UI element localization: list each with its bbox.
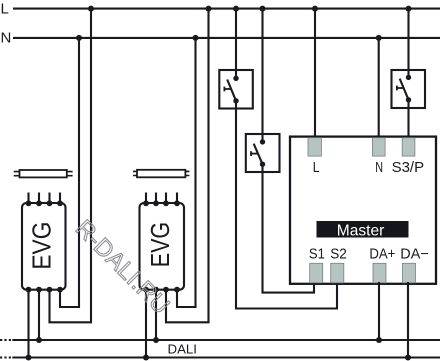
svg-text:S1: S1 <box>309 247 325 263</box>
terminal N <box>372 138 385 156</box>
EVG2 top pins <box>143 200 180 206</box>
terminal DA+ <box>373 263 386 283</box>
ballast EVG2 <box>140 203 185 290</box>
svg-text:S2: S2 <box>330 247 347 263</box>
wire net N to terminal N of master <box>378 38 380 138</box>
SW3 top contact <box>406 75 411 80</box>
SW2 top contact <box>260 139 265 144</box>
wire terminal DA+ to DALI upper <box>378 282 380 340</box>
lamp LA2 (fluorescent tube) <box>133 170 189 178</box>
wire EVG2 pin3 to net L <box>166 9 209 323</box>
dotted continuation DALI upper <box>0 339 11 341</box>
wire EVG2 pin2 to DALI upper <box>155 290 157 340</box>
wire net L to switch SW3 <box>407 9 409 77</box>
svg-text:DA+: DA+ <box>369 247 395 263</box>
SW1 top contact <box>233 76 238 81</box>
wire SW3 to terminal S3/P <box>407 100 409 137</box>
wire EVG2 pin1 to DALI lower <box>145 290 147 358</box>
pushbutton SW3 actuator <box>397 79 409 100</box>
junction DA- bus <box>405 355 411 361</box>
terminal S1 <box>310 263 323 283</box>
svg-text:DA−: DA− <box>400 247 429 263</box>
wire EVG1 pin1 to DALI lower <box>27 290 29 358</box>
junction EVG2-DA+ <box>153 337 159 343</box>
junction EVG2-L <box>206 6 212 12</box>
wire terminal DA- to DALI lower <box>407 282 409 358</box>
junction master N <box>376 35 382 41</box>
wire net L to terminal L of master <box>314 9 316 138</box>
pushbutton SW1 box <box>219 70 253 109</box>
svg-text:L: L <box>313 160 320 176</box>
svg-text:Master: Master <box>337 222 385 239</box>
svg-text:N: N <box>375 160 383 176</box>
SW3 bottom contact <box>406 97 411 102</box>
SW1 bottom contact <box>233 98 238 103</box>
terminal S2 <box>331 263 344 283</box>
svg-text:EVG: EVG <box>27 222 57 270</box>
svg-text:N: N <box>1 30 12 47</box>
junction EVG1-DA- <box>26 355 32 361</box>
lamp LA2 connection stubs <box>146 193 177 204</box>
EVG1 top pins <box>26 200 63 206</box>
EVG1 bottom pins <box>26 287 63 293</box>
junction EVG1-DA+ <box>36 337 42 343</box>
net L (mains line) <box>13 8 440 10</box>
wire SW2 to terminal S1 <box>263 164 315 292</box>
wire EVG1 pin3 to net L <box>50 9 92 323</box>
svg-text:S3/P: S3/P <box>392 160 425 176</box>
junction EVG2-DA- <box>143 355 149 361</box>
junction SW3-L <box>406 6 412 12</box>
pushbutton SW2 box <box>246 134 280 172</box>
pushbutton SW2 actuator <box>251 144 263 165</box>
net DALI lower (DA-) bus <box>12 356 440 358</box>
master nameplate <box>317 221 409 238</box>
net N (mains line) <box>13 37 440 39</box>
pushbutton SW3 box <box>392 70 426 108</box>
wire EVG1 pin2 to DALI upper <box>38 290 40 340</box>
lamp LA1 connection stubs <box>29 193 61 204</box>
pushbutton SW1 actuator <box>224 80 236 101</box>
watermark R-DALI.RU <box>70 215 175 320</box>
svg-text:L: L <box>1 0 9 17</box>
terminal S3/P <box>402 138 415 156</box>
junction master L <box>312 6 318 12</box>
svg-text:DALI: DALI <box>168 343 198 357</box>
junction SW1-L <box>233 6 239 12</box>
lamp LA1 (fluorescent tube) <box>14 170 73 177</box>
SW2 bottom contact <box>260 162 265 167</box>
wire net L to switch SW1 <box>235 9 237 78</box>
wire net L to switch SW2 <box>261 9 263 142</box>
EVG2 bottom pins <box>143 287 180 293</box>
junction DA+ bus <box>376 337 382 343</box>
wire EVG2 pin4 to net N <box>177 38 196 307</box>
junction SW2-L <box>260 6 266 12</box>
dotted continuation DALI lower <box>0 356 11 358</box>
wire EVG1 pin4 to net N <box>60 38 79 307</box>
net DALI upper (DA+) bus <box>12 339 440 341</box>
junction EVG1-N <box>76 35 82 41</box>
terminal DA- <box>403 263 416 283</box>
wire SW1 to terminal S2 <box>236 101 337 309</box>
junction EVG1-L <box>88 6 94 12</box>
junction EVG2-N <box>193 35 199 41</box>
terminal L <box>308 138 321 156</box>
DALI master U1 <box>290 137 436 284</box>
ballast EVG1 <box>22 203 66 290</box>
svg-text:EVG: EVG <box>145 222 175 268</box>
